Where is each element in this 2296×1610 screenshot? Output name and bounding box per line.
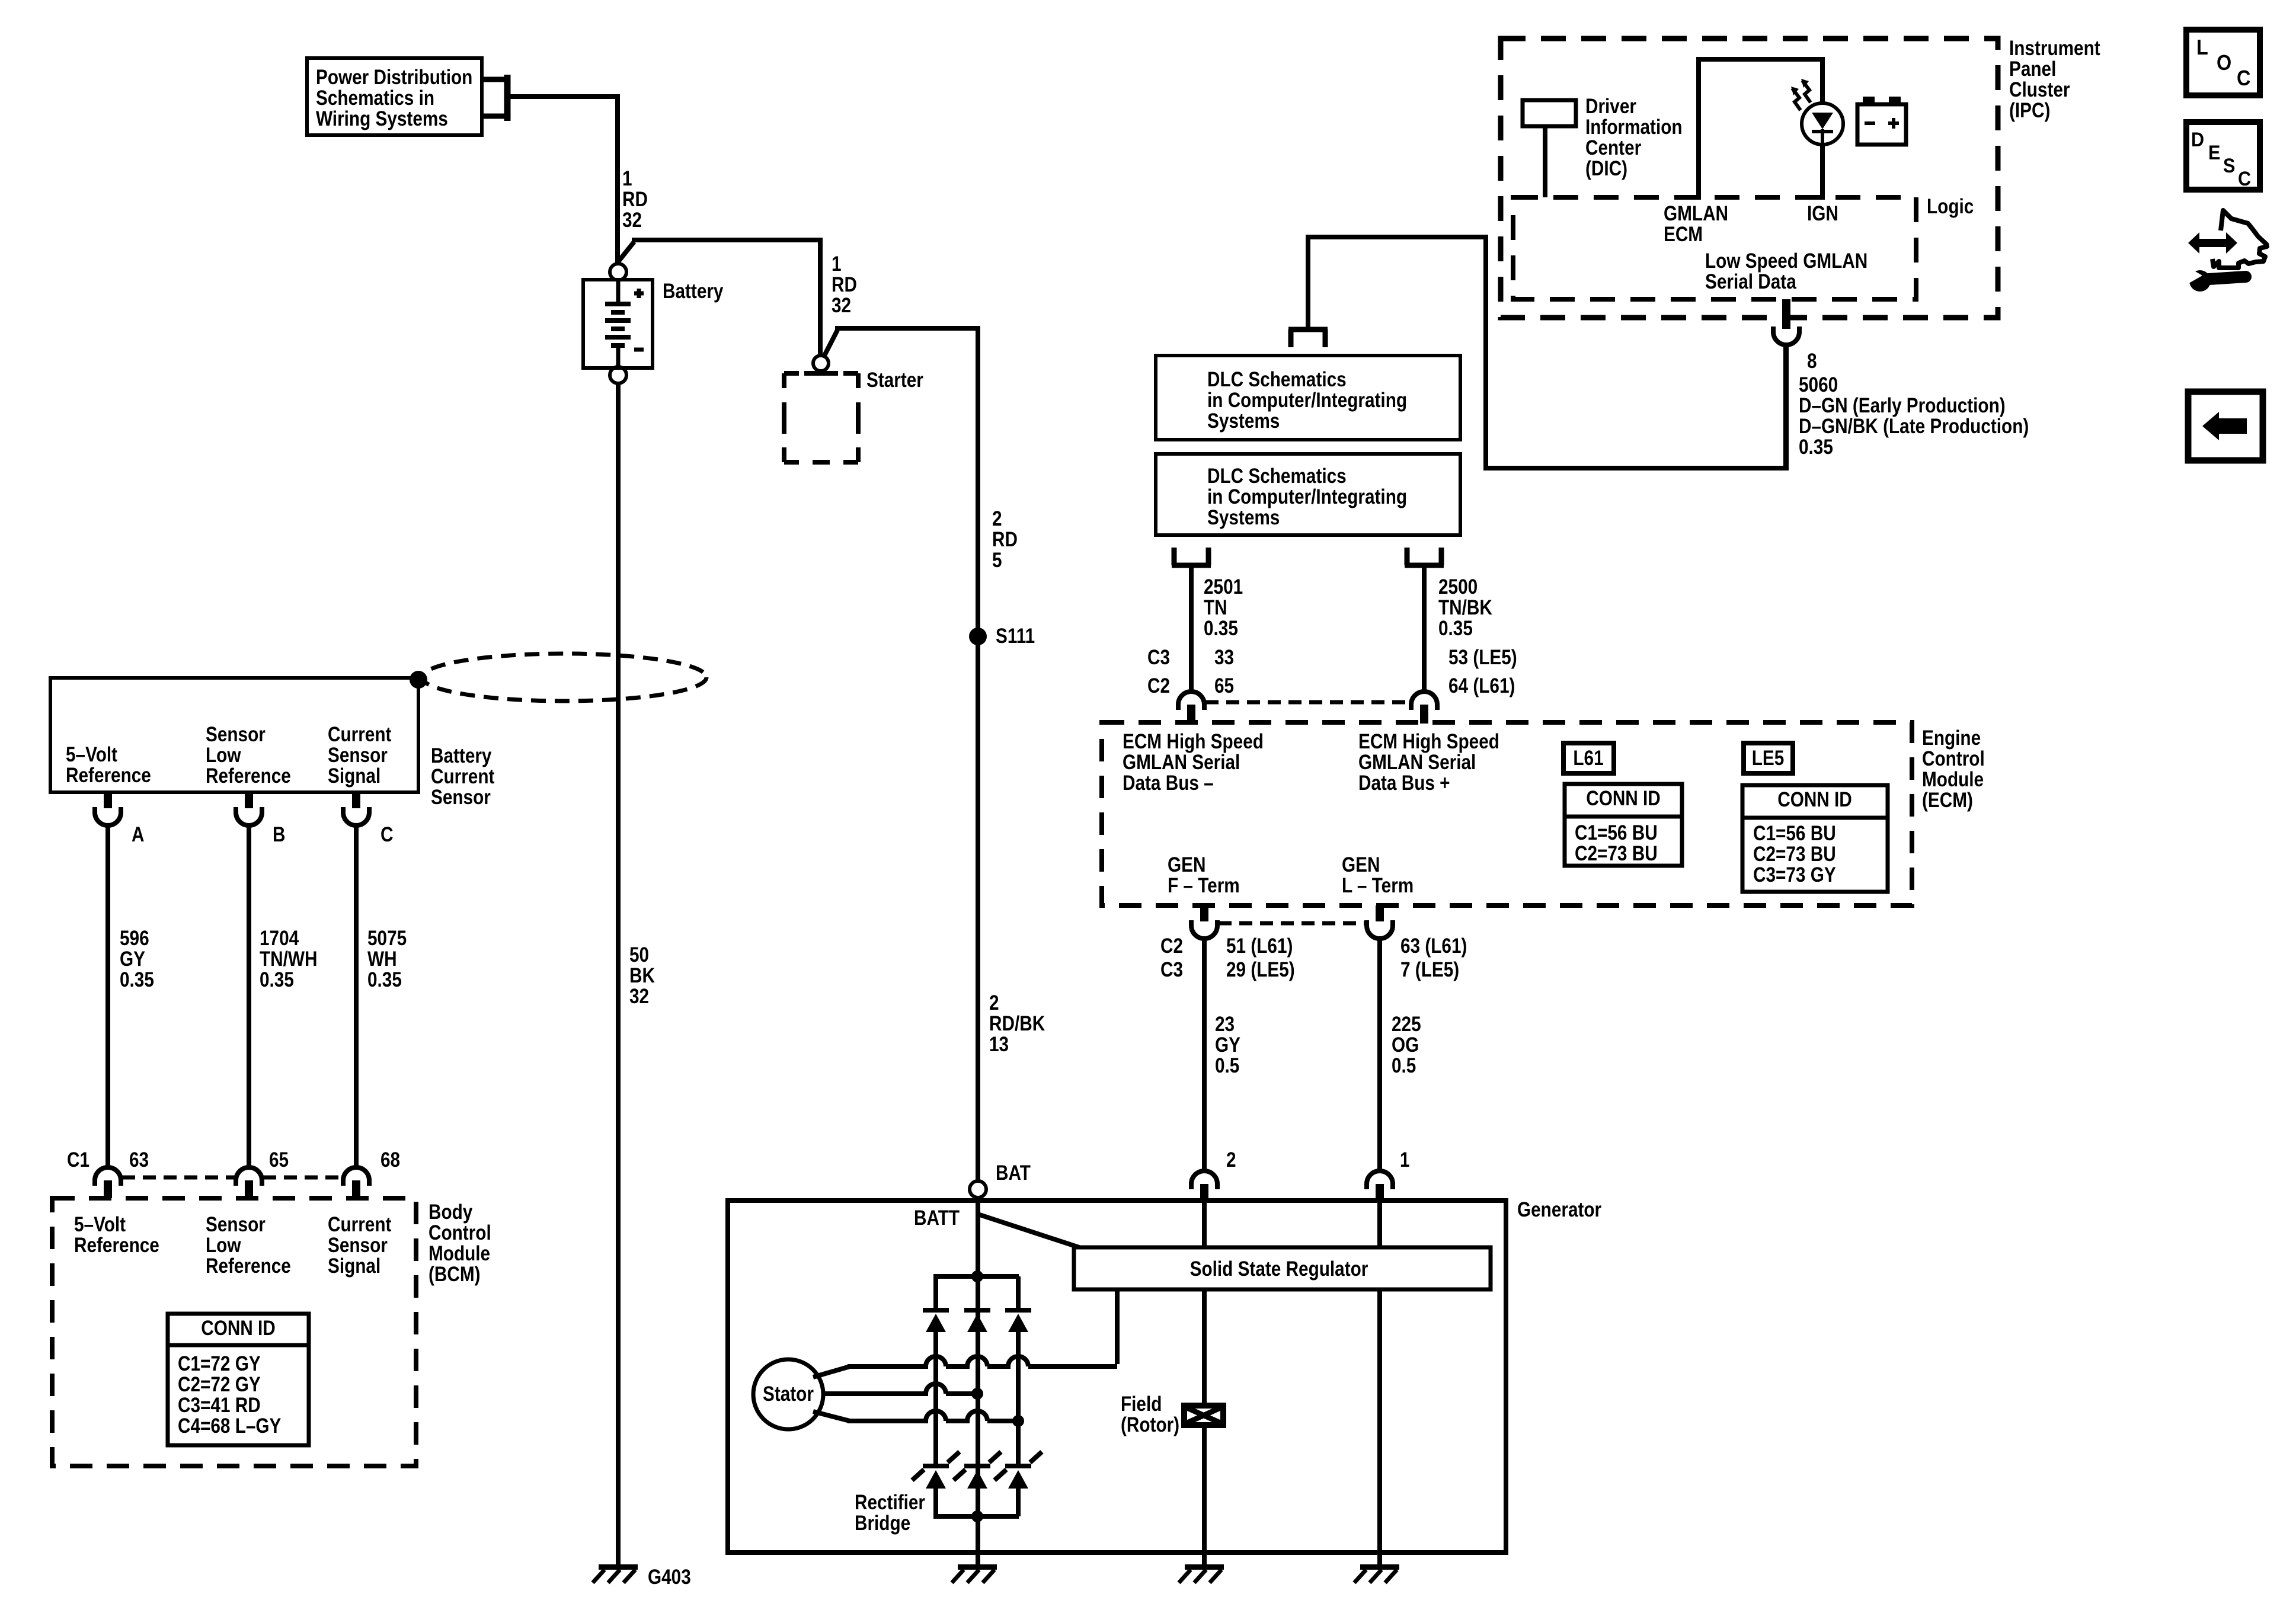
generator ground 1 (rectifier) [952,1564,997,1583]
svg-text:Engine: Engine [1922,726,1981,750]
svg-text:CONN ID: CONN ID [201,1317,276,1340]
lower avalanche diode center [954,1452,1001,1489]
svg-text:0.35: 0.35 [1204,617,1238,640]
svg-text:0.35: 0.35 [120,968,154,991]
svg-text:Panel: Panel [2009,57,2056,81]
generator pin 2 connector dome [1191,1171,1217,1202]
DLC Schematics reference box 2 [1156,454,1460,535]
svg-text:L61: L61 [1573,747,1603,770]
svg-text:G403: G403 [648,1566,691,1589]
stator phase wire 3 [813,1411,1018,1421]
svg-text:Information: Information [1585,116,1683,139]
svg-text:Wiring Systems: Wiring Systems [316,107,448,130]
svg-text:in Computer/Integrating: in Computer/Integrating [1207,389,1407,412]
svg-text:ECM High Speed: ECM High Speed [1123,730,1264,753]
LE5 CONN ID table [1742,785,1888,892]
svg-text:Generator: Generator [1517,1198,1601,1221]
L61 tag box [1563,743,1614,773]
svg-text:GMLAN Serial: GMLAN Serial [1123,751,1240,774]
wire: DLC reference to IPC serial data [1306,235,1788,470]
BCM CONN ID table [168,1314,309,1445]
IPC serial data connector pin 8 [1773,299,1799,345]
svg-text:Control: Control [428,1221,491,1244]
svg-text:L: L [2196,36,2208,59]
wire: battery negative to ground G403 (50 BK 32) [616,383,621,1565]
starter S1 dashed box [784,373,858,462]
BCM connector dome at x=601 [343,1167,369,1198]
svg-text:Module: Module [428,1242,490,1265]
svg-text:5060: 5060 [1799,373,1838,396]
svg-text:O: O [2217,51,2231,75]
svg-text:Schematics in: Schematics in [316,87,434,110]
svg-text:Data Bus –: Data Bus – [1123,772,1214,795]
battery current sensor box [50,678,418,792]
wire 225 OG 0.5 GEN L-Term [1377,939,1382,1171]
Solid State Regulator box [1074,1247,1491,1289]
svg-text:CONN ID: CONN ID [1586,787,1661,810]
svg-text:1704: 1704 [260,927,299,950]
sensor pin B connector [236,792,262,825]
wire: BATT diagonal to Solid State Regulator [978,1214,1086,1250]
rectifier top bus bar [933,1274,1019,1279]
svg-text:C: C [380,823,393,846]
svg-text:33: 33 [1214,646,1234,669]
wire 2500 TN/BK serial data bus + [1422,565,1427,693]
connector cup below DLC box at x=2010 [1172,548,1211,565]
svg-text:2: 2 [989,991,999,1014]
svg-text:S: S [2223,155,2235,177]
svg-text:OG: OG [1392,1033,1419,1057]
svg-text:DLC Schematics: DLC Schematics [1207,465,1347,488]
battery cell plates symbol [605,280,631,368]
DIC display symbol [1523,100,1576,197]
svg-text:Battery: Battery [663,280,723,303]
generator ground 2 (field) [1179,1564,1224,1583]
svg-text:0.35: 0.35 [1438,617,1473,640]
svg-text:GEN: GEN [1168,853,1205,876]
svg-text:Bridge: Bridge [855,1512,910,1535]
svg-text:Logic: Logic [1927,195,1974,218]
upper diode left [923,1308,949,1332]
svg-text:Starter: Starter [866,369,923,392]
svg-text:BK: BK [629,964,655,987]
svg-text:65: 65 [269,1148,289,1172]
svg-text:Reference: Reference [206,764,291,788]
harness routing icon with double arrow and wrench [2185,210,2267,292]
svg-text:GY: GY [1215,1033,1240,1057]
svg-text:53 (LE5): 53 (LE5) [1448,646,1517,669]
svg-text:Reference: Reference [66,764,151,787]
svg-text:(IPC): (IPC) [2009,99,2050,122]
svg-text:C2=73 BU: C2=73 BU [1753,843,1836,866]
svg-text:8: 8 [1807,350,1817,373]
labels inside BCM box [74,1213,392,1278]
svg-text:F – Term: F – Term [1168,874,1240,897]
svg-text:1: 1 [832,252,842,276]
Logic dashed box [1513,197,1916,299]
svg-text:1: 1 [622,167,632,190]
svg-text:Module: Module [1922,768,1984,791]
svg-text:Sensor: Sensor [328,744,388,767]
svg-text:D: D [2191,129,2204,151]
dashed connector line at BCM [122,1176,343,1180]
Instrument Panel Cluster dashed box [1501,39,1998,318]
svg-text:2: 2 [1226,1148,1236,1172]
svg-text:L – Term: L – Term [1342,874,1414,897]
svg-text:C2: C2 [1147,674,1170,697]
svg-text:C: C [2238,168,2251,190]
svg-text:RD: RD [992,528,1018,551]
connector bracket on Power Distribution box [482,75,507,121]
wire: sensor pin A to BCM (596 GY) [105,825,110,1169]
svg-text:TN: TN [1204,596,1227,619]
svg-text:C2=72 GY: C2=72 GY [178,1373,261,1396]
upper diode center [964,1308,990,1332]
svg-text:Current: Current [328,723,392,746]
sensor pin A connector [95,792,121,825]
wire 2501 TN serial data bus - [1189,565,1194,693]
wire GEN F-Term through regulator to field [1202,1201,1207,1407]
svg-text:B: B [273,823,285,846]
field rotor winding symbol [1184,1406,1223,1425]
DLC Schematics reference box 1 [1156,356,1460,440]
svg-text:0.5: 0.5 [1392,1054,1416,1077]
svg-text:32: 32 [622,209,642,232]
DESC icon box [2186,122,2260,190]
svg-text:C3: C3 [1147,646,1170,669]
battery B1 box [583,280,653,368]
battery negative terminal circle [610,367,626,383]
wire GEN L-Term to generator case ground [1377,1201,1382,1565]
svg-text:Reference: Reference [74,1234,159,1257]
junction dot phase 2 to center column [971,1388,983,1400]
svg-text:LE5: LE5 [1752,747,1785,770]
reference box: Power Distribution Schematics in Wiring Systems [307,58,482,135]
svg-text:CONN ID: CONN ID [1777,788,1852,811]
svg-text:0.35: 0.35 [367,968,402,991]
svg-text:in Computer/Integrating: in Computer/Integrating [1207,485,1407,508]
BCM connector pin labels C1 63 65 68 [67,1148,400,1172]
charge indicator LED circle [1802,103,1843,145]
svg-text:2501: 2501 [1204,575,1243,598]
lower avalanche diode left [912,1452,960,1489]
svg-text:A: A [132,823,144,846]
connector cup above DLC box [1288,329,1328,347]
svg-text:C: C [2237,66,2250,90]
stator phase wire 2 [823,1384,977,1394]
svg-text:C1=56 BU: C1=56 BU [1753,822,1836,845]
svg-text:ECM: ECM [1664,223,1703,246]
svg-text:225: 225 [1392,1013,1421,1036]
generator pin 1 connector dome [1367,1171,1393,1202]
svg-text:5: 5 [992,549,1002,572]
stator circle [753,1359,823,1429]
svg-text:D–GN/BK (Late Production): D–GN/BK (Late Production) [1799,415,2029,438]
rectifier left column [933,1276,938,1516]
svg-text:(BCM): (BCM) [428,1263,481,1286]
svg-text:C3=41 RD: C3=41 RD [178,1394,261,1417]
ECM bottom connector at x=2328 [1367,905,1393,939]
stator phase wire 1 to regulator [813,1289,1117,1377]
generator BAT terminal circle [970,1181,986,1198]
LOC icon box [2186,30,2260,95]
svg-text:GEN: GEN [1342,853,1380,876]
ECM top connector pin labels [1147,646,1517,697]
wire LED to logic box [1820,143,1825,200]
svg-text:Center: Center [1585,136,1642,159]
svg-text:E: E [2208,142,2220,164]
svg-text:13: 13 [989,1033,1009,1056]
svg-text:Sensor: Sensor [328,1234,388,1257]
BCM connector dome at x=182 [95,1167,121,1198]
rectifier right column [1016,1276,1021,1516]
wire field to generator case ground [1202,1425,1207,1565]
ECM bottom connector pin labels [1160,934,1467,981]
svg-text:C1=56 BU: C1=56 BU [1575,821,1658,844]
wire: BAT terminal into generator and rectifier center column [976,1198,980,1565]
wire GMLAN ECM to IGN telltale [1696,59,1825,200]
ECM top connector dome at x=2010 [1178,692,1204,724]
wire: sensor pin C to BCM (5075 WH) [354,825,359,1169]
svg-text:Low: Low [206,1234,241,1257]
wire 23 GY 0.5 GEN F-Term [1202,939,1207,1171]
svg-text:Rectifier: Rectifier [855,1491,925,1514]
ECM top connector dome at x=2403 [1411,692,1437,724]
svg-text:Sensor: Sensor [206,723,266,746]
svg-text:23: 23 [1215,1013,1235,1036]
dashed connector line at ECM top [1205,700,1410,705]
svg-text:C1=72 GY: C1=72 GY [178,1352,261,1375]
svg-text:Low: Low [206,744,241,767]
junction dot phase 3 to right column [1012,1415,1024,1427]
svg-text:RD: RD [832,273,857,296]
svg-text:51 (L61): 51 (L61) [1226,934,1293,958]
junction dot bottom bus [971,1510,983,1522]
svg-text:Current: Current [328,1213,392,1236]
svg-text:BAT: BAT [996,1161,1031,1185]
svg-text:Systems: Systems [1207,506,1280,529]
svg-text:5–Volt: 5–Volt [74,1213,126,1236]
svg-text:Data Bus +: Data Bus + [1358,772,1450,795]
upper diode right [1005,1308,1031,1332]
wire: starter branch to generator BAT (2 RD 5) [824,326,978,1182]
svg-text:0.35: 0.35 [1799,436,1833,459]
svg-text:IGN: IGN [1807,202,1838,225]
svg-text:DLC Schematics: DLC Schematics [1207,368,1347,391]
sensor pin C connector [343,792,369,825]
svg-text:D–GN (Early Production): D–GN (Early Production) [1799,394,2006,417]
LED arrows [1791,79,1811,110]
rectifier bottom bus bar [933,1514,1019,1519]
svg-text:Solid State Regulator: Solid State Regulator [1190,1257,1368,1281]
svg-text:Body: Body [428,1201,472,1224]
svg-text:Signal: Signal [328,764,380,788]
svg-text:5–Volt: 5–Volt [66,743,117,766]
wire: branch battery positive to starter feed [618,238,820,356]
wire: sensor pin B to BCM (1704 TN/WH) [247,825,251,1169]
svg-text:C3=73 GY: C3=73 GY [1753,863,1836,886]
svg-text:RD: RD [622,188,648,211]
svg-text:Sensor: Sensor [206,1213,266,1236]
ground G403 symbol [593,1564,638,1583]
svg-text:Serial Data: Serial Data [1705,270,1797,293]
svg-text:7 (LE5): 7 (LE5) [1400,958,1459,981]
svg-text:BATT: BATT [914,1206,960,1230]
battery plus sign [634,289,644,298]
svg-text:0.5: 0.5 [1215,1054,1239,1077]
wire: Power Distribution box to Battery positive [507,94,618,264]
svg-text:63 (L61): 63 (L61) [1400,934,1467,958]
BCM connector dome at x=420 [236,1167,262,1198]
dashed connector line at ECM bottom [1219,921,1366,926]
svg-text:0.35: 0.35 [260,968,294,991]
svg-text:29 (LE5): 29 (LE5) [1226,958,1295,981]
battery positive terminal circle [610,264,626,280]
generator ground 3 (case) [1354,1564,1399,1583]
junction dot top bus [971,1270,983,1282]
svg-text:Instrument: Instrument [2009,37,2100,60]
L61 CONN ID table [1565,784,1682,866]
svg-text:63: 63 [129,1148,149,1172]
LED diode triangle and bar [1812,113,1833,146]
svg-text:Driver: Driver [1585,95,1636,118]
BCM dashed box [52,1198,416,1466]
dashed ellipse clamp around battery cable [422,654,706,701]
svg-text:Sensor: Sensor [431,786,491,809]
svg-text:C2: C2 [1160,934,1183,958]
svg-text:Field: Field [1121,1393,1162,1416]
wire from IPC pin 8 [1784,345,1789,470]
LE5 tag box [1744,743,1793,773]
svg-text:Battery: Battery [431,744,491,767]
svg-text:(DIC): (DIC) [1585,157,1627,180]
battery minus sign [634,348,644,352]
svg-text:Current: Current [431,765,495,788]
svg-text:(Rotor): (Rotor) [1121,1413,1179,1436]
svg-text:Power Distribution: Power Distribution [316,66,472,89]
svg-text:2500: 2500 [1438,575,1478,598]
svg-text:2: 2 [992,507,1002,530]
svg-text:C1: C1 [67,1148,89,1172]
ECM bottom connector at x=2032 [1191,905,1217,939]
svg-text:Cluster: Cluster [2009,78,2070,101]
svg-text:WH: WH [367,948,397,971]
connector cup below DLC box at x=2403 [1405,548,1444,565]
svg-text:Stator: Stator [763,1382,814,1406]
labels inside battery current sensor box [66,723,392,788]
svg-text:GY: GY [120,948,145,971]
svg-text:64 (L61): 64 (L61) [1448,674,1515,697]
svg-text:C3: C3 [1160,958,1183,981]
battery telltale icon [1857,97,1906,145]
svg-text:GMLAN: GMLAN [1664,202,1728,225]
back arrow icon box [2188,392,2263,460]
svg-text:68: 68 [380,1148,400,1172]
svg-text:ECM High Speed: ECM High Speed [1358,730,1499,753]
svg-text:Control: Control [1922,747,1985,770]
svg-text:32: 32 [832,294,851,317]
lower avalanche diode right [994,1452,1042,1489]
svg-text:Reference: Reference [206,1254,291,1278]
svg-text:1: 1 [1400,1148,1410,1172]
splice S111 dot [969,628,987,645]
svg-text:Signal: Signal [328,1254,380,1278]
node dot at sensor top right [410,671,427,689]
svg-text:596: 596 [120,927,149,950]
svg-text:C4=68 L–GY: C4=68 L–GY [178,1414,282,1438]
svg-text:TN/BK: TN/BK [1438,596,1492,619]
svg-text:RD/BK: RD/BK [989,1012,1045,1035]
svg-text:(ECM): (ECM) [1922,789,1973,812]
svg-text:TN/WH: TN/WH [260,948,317,971]
svg-text:Low Speed GMLAN: Low Speed GMLAN [1705,249,1868,273]
svg-text:Systems: Systems [1207,409,1280,433]
svg-text:65: 65 [1214,674,1234,697]
svg-text:50: 50 [629,943,649,966]
svg-text:32: 32 [629,985,649,1008]
Generator box [728,1201,1506,1553]
Engine Control Module dashed box [1102,722,1912,905]
starter terminal circle [813,356,829,371]
svg-text:5075: 5075 [367,927,407,950]
svg-text:C2=73 BU: C2=73 BU [1575,842,1658,865]
svg-text:GMLAN Serial: GMLAN Serial [1358,751,1476,774]
svg-text:S111: S111 [996,625,1035,648]
